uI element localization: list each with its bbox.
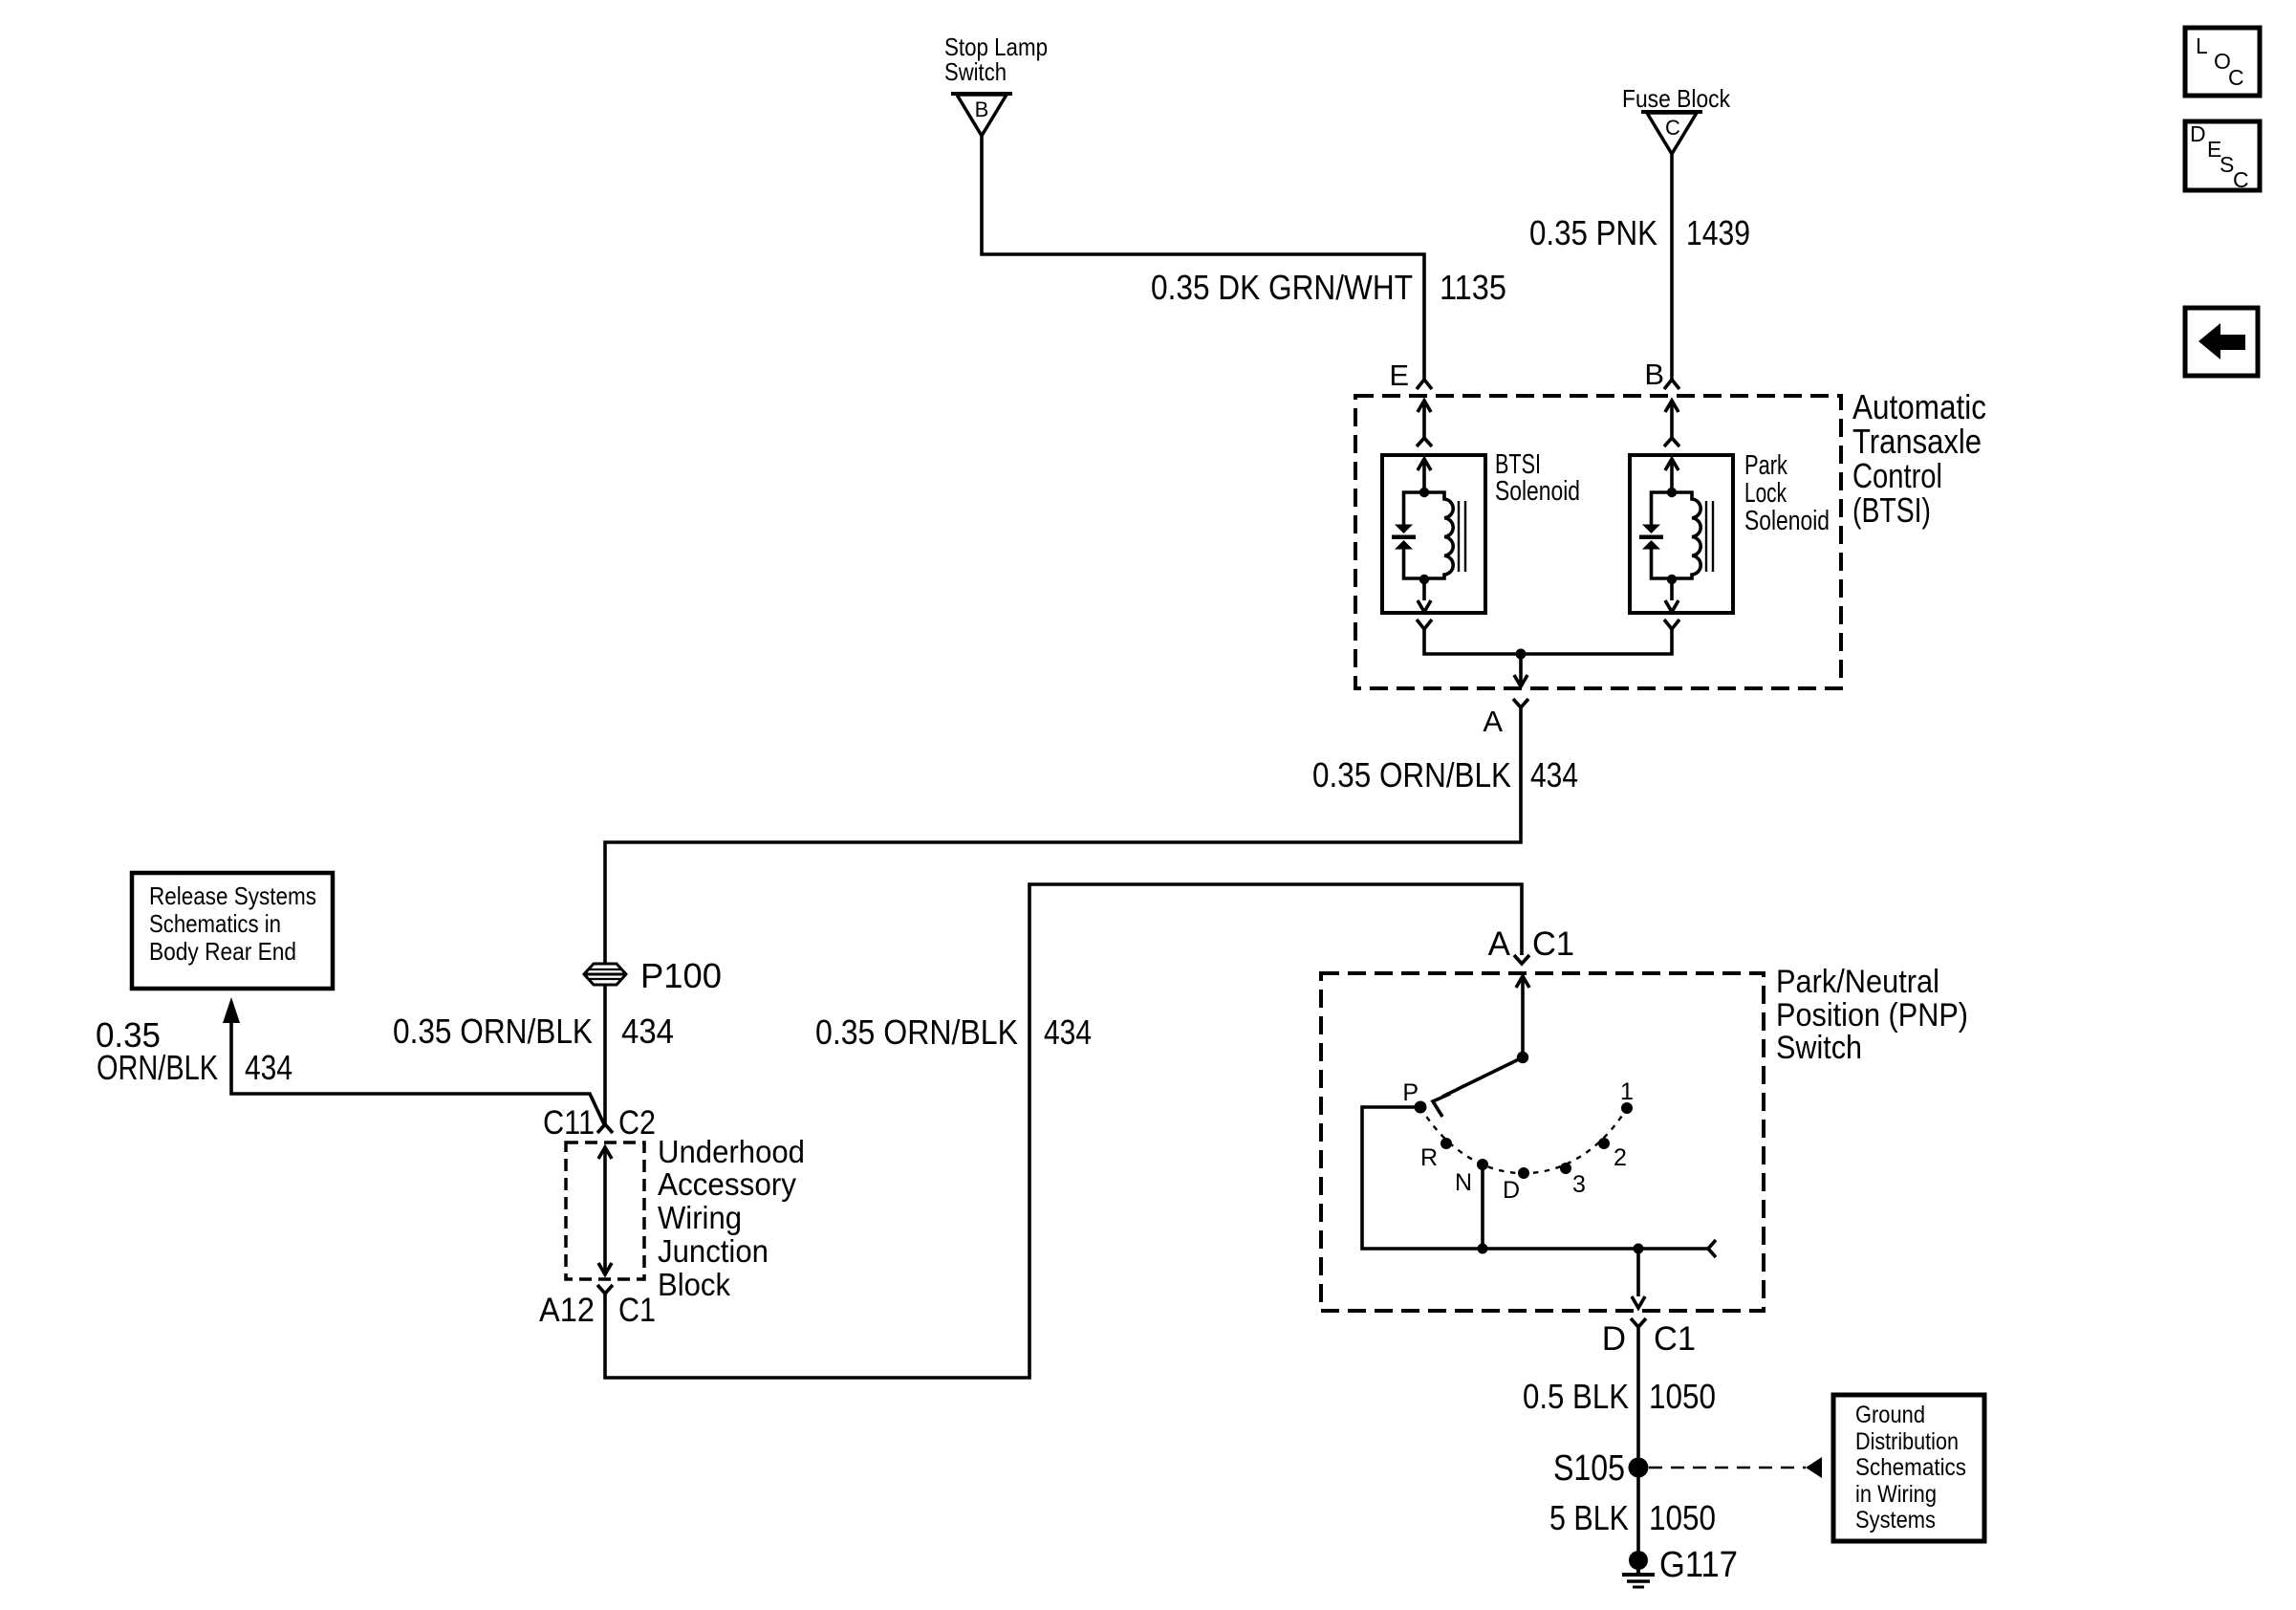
svg-text:A: A [1483, 705, 1503, 738]
svg-text:Body Rear End: Body Rear End [149, 937, 296, 966]
svg-text:0.35 ORN/BLK: 0.35 ORN/BLK [815, 1012, 1018, 1052]
svg-text:Fuse Block: Fuse Block [1622, 84, 1731, 113]
svg-text:S105: S105 [1553, 1448, 1625, 1489]
svg-text:1: 1 [1620, 1078, 1634, 1105]
svg-text:434: 434 [1530, 755, 1578, 794]
svg-text:434: 434 [1044, 1012, 1092, 1052]
svg-text:Block: Block [658, 1267, 730, 1302]
svg-text:B: B [1644, 358, 1664, 391]
svg-text:C: C [1665, 116, 1680, 140]
svg-text:Systems: Systems [1855, 1507, 1936, 1534]
svg-text:Ground: Ground [1855, 1402, 1925, 1428]
svg-text:Junction: Junction [658, 1233, 769, 1269]
svg-text:Lock: Lock [1744, 478, 1787, 509]
svg-text:Park: Park [1744, 450, 1787, 481]
svg-text:Wiring: Wiring [658, 1200, 742, 1235]
svg-text:ORN/BLK: ORN/BLK [97, 1048, 218, 1087]
svg-text:Solenoid: Solenoid [1495, 476, 1580, 507]
svg-text:0.5 BLK: 0.5 BLK [1523, 1377, 1629, 1416]
svg-text:D: D [1602, 1320, 1626, 1358]
svg-text:C1: C1 [1532, 925, 1574, 963]
svg-text:2: 2 [1614, 1144, 1627, 1171]
svg-text:A: A [1488, 925, 1511, 963]
svg-text:434: 434 [621, 1012, 674, 1051]
svg-text:C11: C11 [543, 1104, 595, 1142]
svg-text:N: N [1455, 1169, 1472, 1196]
svg-text:Release Systems: Release Systems [149, 881, 316, 910]
svg-text:C: C [2233, 167, 2249, 192]
svg-text:P: P [1402, 1079, 1419, 1106]
svg-text:0.35 ORN/BLK: 0.35 ORN/BLK [1312, 755, 1511, 794]
svg-text:A12: A12 [539, 1292, 595, 1329]
svg-text:in Wiring: in Wiring [1855, 1481, 1937, 1508]
svg-text:P100: P100 [640, 956, 722, 995]
svg-text:434: 434 [245, 1048, 292, 1087]
svg-text:C1: C1 [1654, 1320, 1696, 1358]
svg-text:Automatic: Automatic [1852, 387, 1986, 426]
svg-text:R: R [1420, 1144, 1438, 1171]
svg-text:G117: G117 [1659, 1545, 1738, 1585]
svg-text:1439: 1439 [1686, 213, 1750, 252]
svg-text:1050: 1050 [1649, 1377, 1716, 1416]
svg-text:Underhood: Underhood [658, 1134, 805, 1169]
svg-text:0.35 DK GRN/WHT: 0.35 DK GRN/WHT [1151, 268, 1413, 307]
svg-text:Distribution: Distribution [1855, 1428, 1959, 1455]
svg-text:Schematics: Schematics [1855, 1454, 1966, 1481]
svg-text:Position (PNP): Position (PNP) [1776, 997, 1968, 1033]
svg-text:3: 3 [1572, 1171, 1586, 1198]
svg-text:Switch: Switch [944, 57, 1007, 86]
svg-text:Accessory: Accessory [658, 1166, 796, 1202]
svg-text:0.35 ORN/BLK: 0.35 ORN/BLK [393, 1012, 593, 1051]
svg-text:0.35 PNK: 0.35 PNK [1529, 213, 1657, 252]
svg-text:Control: Control [1852, 456, 1942, 495]
svg-text:(BTSI): (BTSI) [1852, 490, 1931, 530]
svg-text:L: L [2196, 33, 2208, 58]
svg-text:Switch: Switch [1776, 1030, 1862, 1066]
svg-text:E: E [1389, 359, 1409, 392]
svg-text:Schematics in: Schematics in [149, 909, 281, 938]
svg-text:Solenoid: Solenoid [1744, 506, 1830, 536]
svg-text:D: D [1503, 1177, 1520, 1204]
svg-text:D: D [2190, 121, 2206, 146]
svg-text:Transaxle: Transaxle [1852, 422, 1982, 461]
svg-text:B: B [975, 98, 989, 121]
svg-text:1050: 1050 [1649, 1498, 1716, 1537]
svg-text:C1: C1 [618, 1292, 656, 1329]
svg-text:Park/Neutral: Park/Neutral [1776, 964, 1939, 1000]
svg-text:1135: 1135 [1440, 268, 1506, 307]
svg-text:C: C [2228, 65, 2244, 90]
svg-text:5 BLK: 5 BLK [1549, 1498, 1629, 1537]
svg-text:C2: C2 [618, 1104, 656, 1142]
